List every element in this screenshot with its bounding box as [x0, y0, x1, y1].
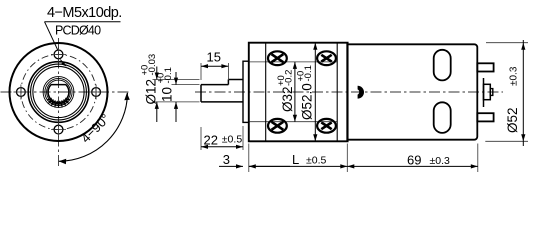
shaft circle with flat top: [48, 85, 69, 103]
gearbox seam left: [265, 43, 267, 141]
4-90 deg angular dimension arc: [59, 93, 130, 165]
gearbox case: [249, 43, 348, 142]
dim d12 +0/-0.03: [140, 54, 200, 122]
bolt hole bottom: [51, 122, 66, 137]
main centerline: [195, 91, 503, 93]
end cap nub: [490, 89, 493, 96]
front boss plate (3mm, d32): [243, 61, 249, 122]
svg-text:-0.1: -0.1: [163, 67, 174, 83]
dim 3 (boss thickness): [219, 144, 290, 173]
svg-text:PCDØ40: PCDØ40: [55, 24, 101, 38]
boss circle inner2: [33, 66, 84, 117]
svg-text:15: 15: [207, 50, 221, 65]
svg-text:Ø32: Ø32: [280, 86, 295, 112]
collar ring outer: [43, 77, 74, 108]
gearbox seam right: [336, 43, 338, 141]
svg-text:69: 69: [407, 153, 421, 168]
dim 10 +0/-0.1 (flat height): [156, 67, 200, 122]
dim d52 +-0.3 (right side): [485, 40, 528, 146]
svg-text:L: L: [292, 152, 299, 167]
motor vent bottom: [434, 102, 451, 133]
terminal tab bottom: [477, 113, 493, 121]
dim 69 +-0.3 (motor length): [347, 144, 478, 173]
bolt hole left: [13, 85, 28, 100]
horizontal centerline: [1, 91, 132, 93]
bearing marker on motor left: [358, 86, 364, 99]
vertical centerline: [58, 38, 60, 166]
screw bottom-right: [317, 119, 336, 133]
bolt hole top: [51, 47, 66, 62]
shaft outline: [201, 80, 243, 102]
screw bottom-left: [268, 119, 287, 133]
collar ring mid: [45, 78, 72, 105]
motor body: [348, 44, 478, 139]
svg-text:Ø52: Ø52: [505, 107, 520, 133]
label 4-M5x10dp. with leader: [45, 5, 122, 66]
dim d52.0 +0/-0.1 (gearbox dia): [296, 43, 318, 142]
outer flange circle: [10, 43, 108, 141]
svg-text:3: 3: [223, 152, 230, 167]
end cap ridge: [483, 78, 485, 107]
PCD bolt circle (dashed): [21, 54, 96, 129]
svg-text:4−M5x10dp.: 4−M5x10dp.: [47, 5, 122, 21]
svg-text:±0.5: ±0.5: [222, 133, 243, 145]
svg-text:-0.1: -0.1: [303, 65, 314, 81]
svg-text:±0.3: ±0.3: [430, 155, 451, 167]
svg-text:Ø52.0: Ø52.0: [300, 83, 315, 120]
end cap boss: [484, 84, 491, 99]
svg-text:-0.03: -0.03: [147, 54, 158, 76]
boss circle d32: [28, 62, 89, 123]
screw top-left: [268, 51, 287, 65]
dim L +-0.5 (gearbox length): [249, 144, 347, 173]
dim 22 +-0.5 (shaft length): [201, 126, 243, 150]
terminal tab top: [477, 63, 493, 71]
gear teeth arc at bottom: [47, 99, 70, 106]
dim d32 +0/-0.2 (inside gearbox): [276, 62, 297, 122]
bolt hole right: [89, 85, 104, 100]
motor vent top: [434, 50, 451, 81]
svg-text:-0.2: -0.2: [284, 70, 295, 86]
boss circle inner1: [31, 64, 87, 120]
svg-text:22: 22: [204, 132, 218, 147]
screw top-right: [317, 51, 336, 65]
svg-text:±0.3: ±0.3: [509, 66, 520, 86]
svg-text:±0.5: ±0.5: [306, 155, 327, 167]
collar ring inner: [47, 80, 71, 104]
svg-text:10: 10: [160, 87, 175, 102]
gearbox internal d32 lines: [250, 62, 338, 122]
dim 15 (flat length): [201, 50, 228, 81]
